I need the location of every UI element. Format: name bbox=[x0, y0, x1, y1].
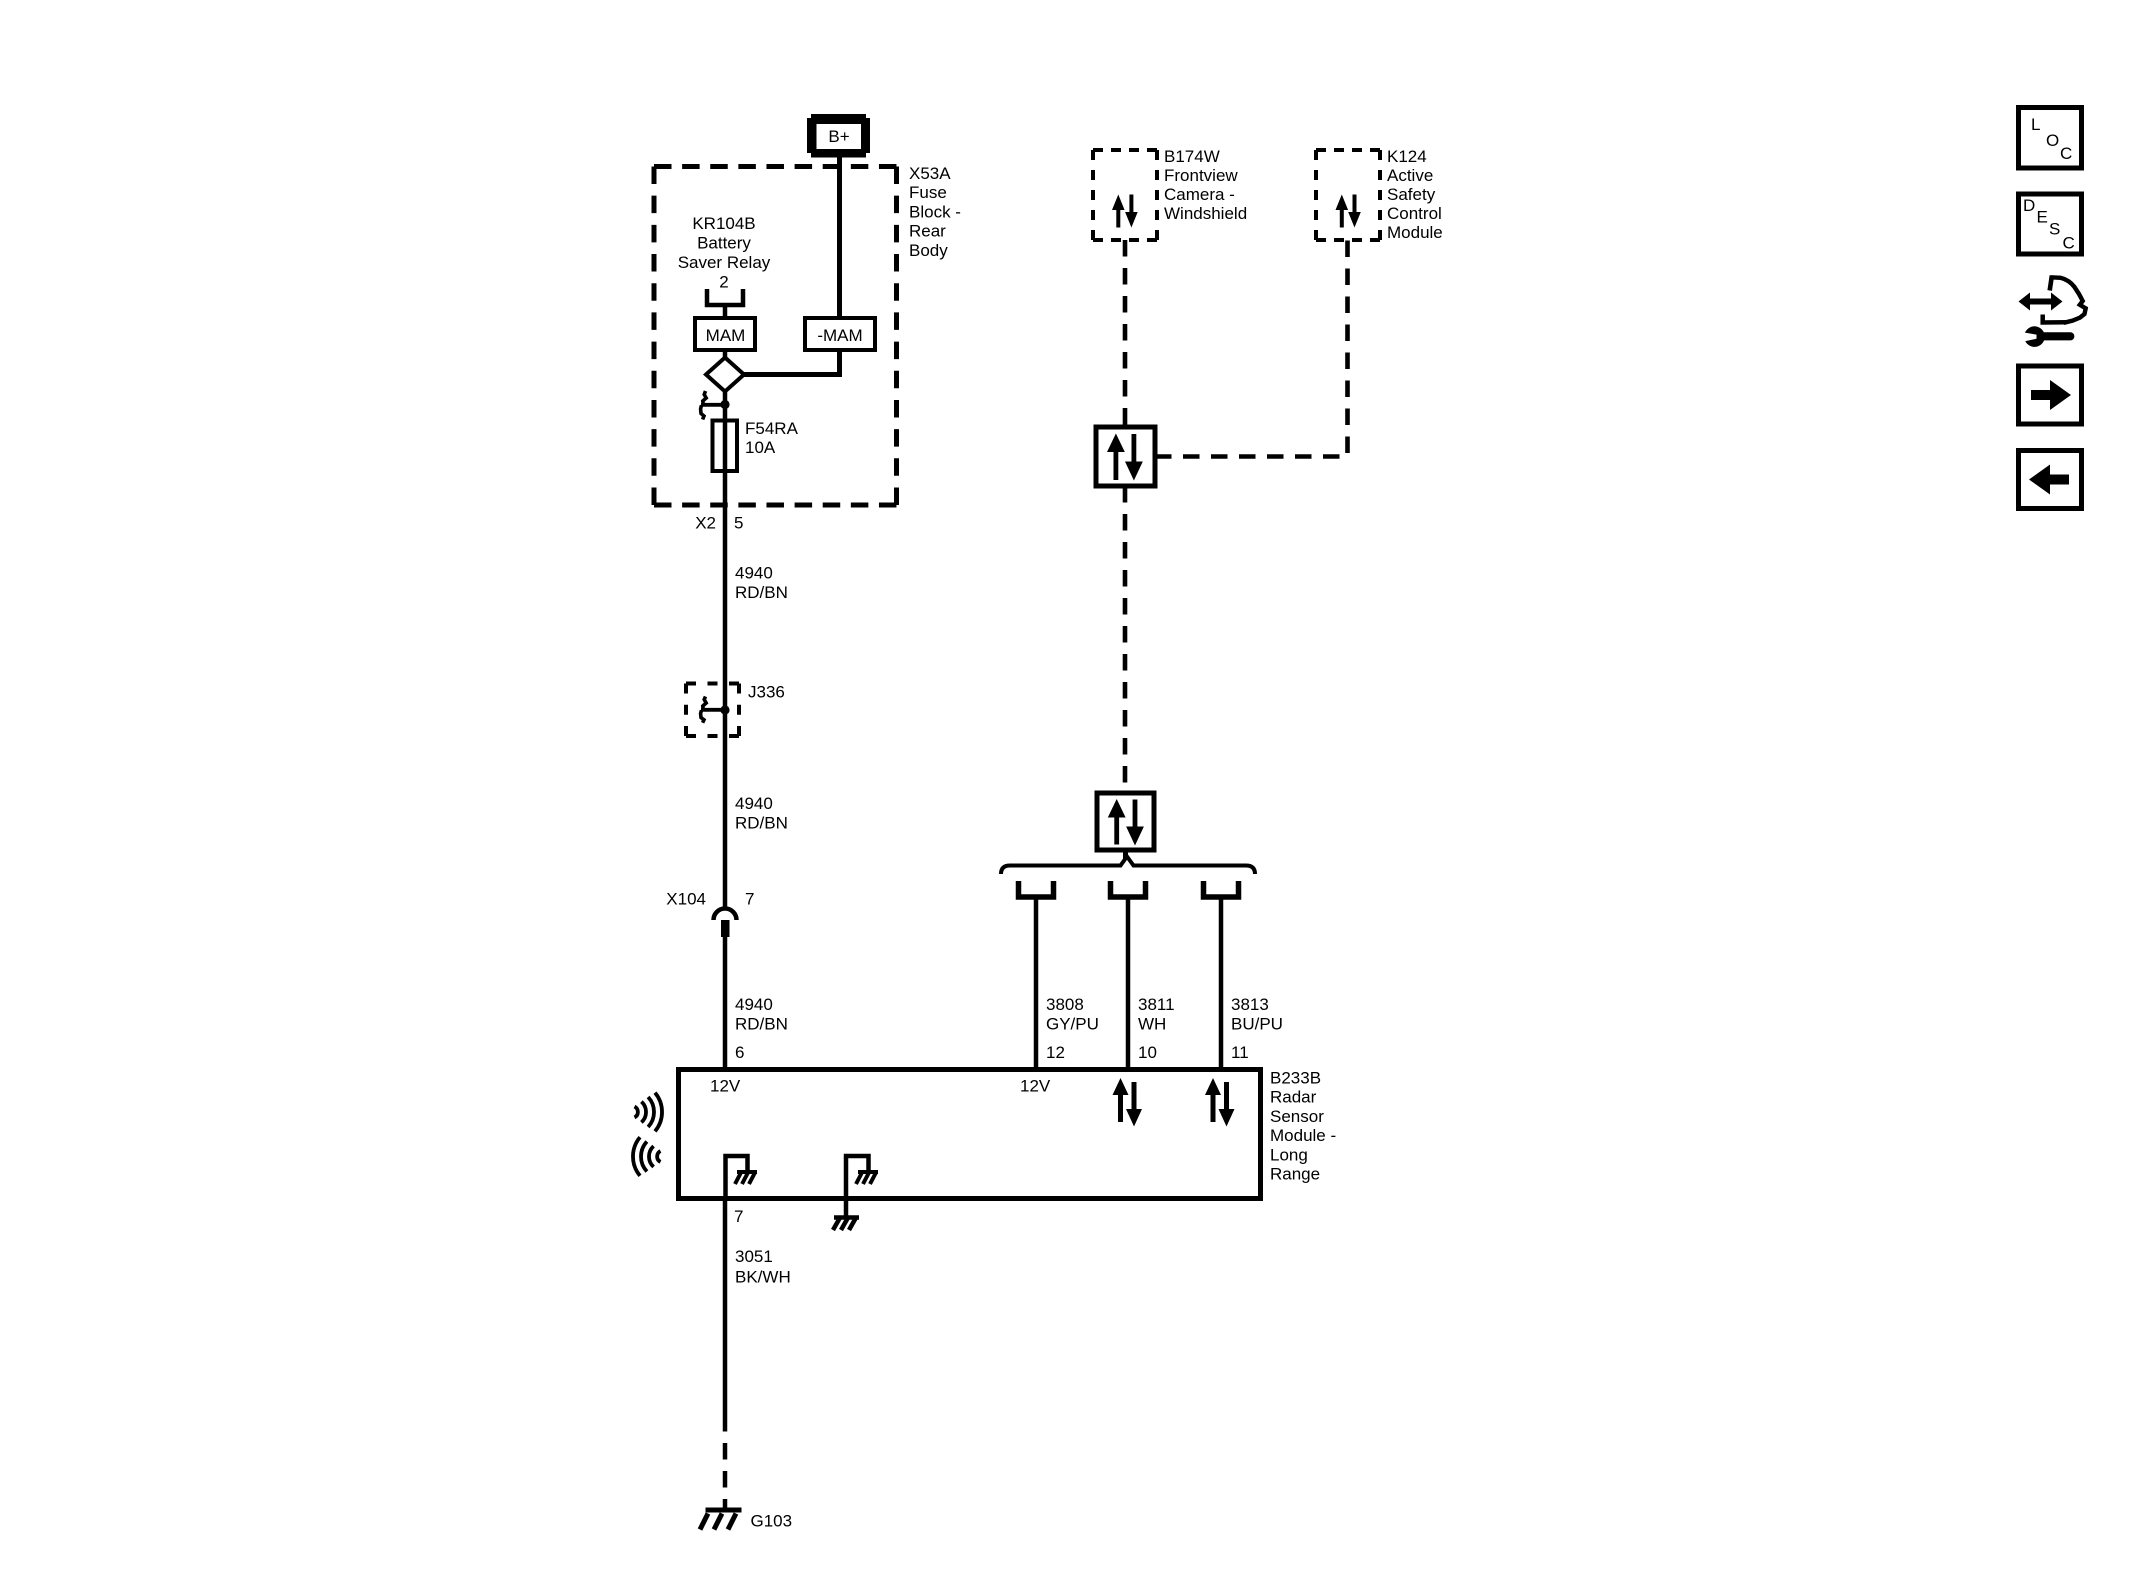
label 3051 BK/WH bbox=[735, 1247, 791, 1287]
connector X104 symbol bbox=[714, 909, 737, 938]
serial data gateway box 1 bbox=[1096, 427, 1155, 486]
label F54RA 10A bbox=[745, 419, 799, 457]
svg-text:GY/PU: GY/PU bbox=[1046, 1015, 1099, 1034]
svg-text:RD/BN: RD/BN bbox=[735, 1015, 788, 1034]
svg-text:Saver Relay: Saver Relay bbox=[678, 253, 771, 272]
wire to pin 12 bbox=[1034, 897, 1039, 1067]
module internal arrows pin 11 bbox=[1205, 1078, 1235, 1127]
svg-text:Frontview: Frontview bbox=[1164, 166, 1238, 185]
next page button bbox=[2019, 366, 2082, 424]
module internal arrows pin 10 bbox=[1113, 1078, 1143, 1127]
label 3811 WH bbox=[1138, 995, 1175, 1034]
svg-text:BU/PU: BU/PU bbox=[1231, 1015, 1283, 1034]
svg-text:Sensor: Sensor bbox=[1270, 1107, 1324, 1126]
chassis ground below module bbox=[833, 1218, 859, 1231]
wire B+ down to -MAM bbox=[837, 157, 842, 318]
svg-text:Camera -: Camera - bbox=[1164, 185, 1235, 204]
svg-text:6: 6 bbox=[735, 1043, 744, 1062]
svg-text:C: C bbox=[2060, 144, 2072, 163]
label 4940 RD/BN (2) bbox=[735, 794, 788, 833]
connector X2 pin 5 labels bbox=[695, 514, 743, 533]
svg-text:Module -: Module - bbox=[1270, 1126, 1336, 1145]
splice branch squiggle bbox=[703, 391, 706, 405]
svg-text:RD/BN: RD/BN bbox=[735, 814, 788, 833]
dashed data wire B174W down to gateway box bbox=[1123, 240, 1128, 427]
svg-text:12: 12 bbox=[1046, 1043, 1065, 1062]
serial data gateway box 2 bbox=[1097, 793, 1154, 850]
svg-text:X2: X2 bbox=[695, 514, 716, 533]
stub gateway box 2 to brace bbox=[1123, 850, 1128, 860]
module internal ground pin 7 bbox=[726, 1156, 758, 1197]
terminal -MAM box bbox=[805, 318, 875, 350]
fuse F54RA 10A bbox=[713, 421, 738, 472]
diagnostic icon double arrow bbox=[2019, 293, 2063, 311]
label X53A Fuse Block - Rear Body bbox=[909, 164, 961, 260]
B174W arrows bbox=[1112, 195, 1138, 228]
svg-text:3051: 3051 bbox=[735, 1247, 773, 1266]
svg-text:B233B: B233B bbox=[1270, 1069, 1321, 1088]
radar waves icon upper bbox=[635, 1093, 663, 1132]
junction diamond bbox=[706, 358, 744, 392]
svg-text:10A: 10A bbox=[745, 438, 776, 457]
splice J336 dashed box bbox=[686, 684, 739, 737]
svg-text:L: L bbox=[2031, 115, 2040, 134]
svg-text:Control: Control bbox=[1387, 204, 1442, 223]
radar waves icon lower bbox=[633, 1137, 661, 1176]
connector bracket pin 11 bbox=[1204, 881, 1239, 897]
label 3808 GY/PU bbox=[1046, 995, 1099, 1034]
diagnostic icon wrench bbox=[2023, 326, 2071, 347]
splice branch stub bbox=[701, 403, 725, 407]
svg-text:Block -: Block - bbox=[909, 202, 961, 221]
svg-text:S: S bbox=[2049, 220, 2060, 239]
svg-text:C: C bbox=[2063, 234, 2075, 253]
module B233B Radar Sensor box bbox=[679, 1070, 1261, 1199]
label KR104B Battery Saver Relay 2 bbox=[678, 214, 771, 292]
junction dot bbox=[720, 400, 729, 409]
wire pin 7 down (3051 BK/WH) bbox=[723, 1198, 728, 1415]
svg-text:K124: K124 bbox=[1387, 147, 1427, 166]
svg-text:7: 7 bbox=[745, 890, 754, 909]
svg-text:B174W: B174W bbox=[1164, 147, 1220, 166]
label 4940 RD/BN (1) bbox=[735, 564, 788, 603]
module internal ground 2 bbox=[846, 1156, 878, 1197]
wire MAM to diamond bbox=[723, 350, 728, 358]
svg-text:Rear: Rear bbox=[909, 222, 946, 241]
svg-text:Radar: Radar bbox=[1270, 1088, 1317, 1107]
ground G103 symbol bbox=[700, 1510, 742, 1530]
svg-text:7: 7 bbox=[734, 1207, 743, 1226]
svg-text:RD/BN: RD/BN bbox=[735, 583, 788, 602]
svg-text:4940: 4940 bbox=[735, 564, 773, 583]
svg-text:12V: 12V bbox=[1020, 1077, 1051, 1096]
svg-text:BK/WH: BK/WH bbox=[735, 1268, 791, 1287]
svg-text:-MAM: -MAM bbox=[817, 326, 862, 345]
svg-text:X104: X104 bbox=[666, 890, 706, 909]
wire fuse to X104 (4940 RD/BN) bbox=[723, 420, 728, 907]
wire bracket to MAM bbox=[723, 305, 728, 318]
svg-text:Range: Range bbox=[1270, 1165, 1320, 1184]
svg-text:5: 5 bbox=[734, 514, 743, 533]
svg-text:Module: Module bbox=[1387, 223, 1443, 242]
previous page button bbox=[2019, 451, 2082, 509]
svg-text:4940: 4940 bbox=[735, 794, 773, 813]
wire diamond to fuse bbox=[723, 392, 728, 421]
label 3813 BU/PU bbox=[1231, 995, 1283, 1034]
svg-text:O: O bbox=[2046, 131, 2059, 150]
svg-text:2: 2 bbox=[719, 273, 728, 292]
svg-text:MAM: MAM bbox=[706, 326, 746, 345]
svg-text:11: 11 bbox=[1231, 1043, 1249, 1062]
DESC button bbox=[2019, 194, 2082, 254]
ground wire below module bbox=[844, 1198, 849, 1217]
diagnostic icon car outline spur bbox=[2050, 276, 2052, 291]
svg-text:D: D bbox=[2023, 196, 2035, 215]
svg-text:12V: 12V bbox=[710, 1077, 741, 1096]
dashed data wire K124 to gateway box bbox=[1155, 240, 1348, 457]
terminal MAM box bbox=[695, 318, 755, 350]
svg-text:B+: B+ bbox=[828, 127, 849, 146]
wire X104 to module pin 6 bbox=[723, 937, 728, 1067]
diagnostic icon car outline bbox=[2051, 277, 2086, 323]
svg-text:Safety: Safety bbox=[1387, 185, 1436, 204]
dashed data wire between gateway boxes bbox=[1123, 486, 1128, 793]
label B174W Frontview Camera - Windshield bbox=[1164, 147, 1247, 223]
svg-text:X53A: X53A bbox=[909, 164, 951, 183]
svg-text:E: E bbox=[2037, 208, 2048, 227]
label B233B Radar Sensor Module - Long Range bbox=[1270, 1069, 1336, 1184]
serial data box K124 dashed bbox=[1316, 150, 1380, 240]
connector bracket pin 12 bbox=[1019, 881, 1054, 897]
brace over pin connectors bbox=[1001, 857, 1255, 875]
svg-text:J336: J336 bbox=[748, 683, 785, 702]
wire to pin 10 bbox=[1126, 897, 1131, 1067]
svg-text:3813: 3813 bbox=[1231, 995, 1269, 1014]
LOC button bbox=[2019, 108, 2082, 169]
splice J336 symbol bbox=[701, 697, 730, 723]
wire to pin 11 bbox=[1219, 897, 1224, 1067]
svg-text:F54RA: F54RA bbox=[745, 419, 799, 438]
svg-text:KR104B: KR104B bbox=[692, 214, 755, 233]
svg-text:Fuse: Fuse bbox=[909, 183, 947, 202]
connector X104 labels bbox=[666, 890, 754, 909]
svg-text:Body: Body bbox=[909, 241, 948, 260]
svg-text:G103: G103 bbox=[751, 1512, 793, 1531]
label 4940 RD/BN (3) bbox=[735, 995, 788, 1034]
fuse block X53A dashed box bbox=[654, 167, 897, 506]
dashed wire to G103 bbox=[723, 1415, 728, 1509]
relay KR104B contact bracket bbox=[707, 289, 743, 305]
svg-text:Battery: Battery bbox=[697, 234, 751, 253]
B+ power terminal bbox=[807, 114, 870, 158]
diagnostic icon bottom bar bbox=[2043, 315, 2067, 323]
svg-text:4940: 4940 bbox=[735, 995, 773, 1014]
wire -MAM to diamond bbox=[744, 350, 840, 375]
K124 arrows bbox=[1336, 195, 1361, 228]
connector bracket pin 10 bbox=[1111, 881, 1146, 897]
svg-text:10: 10 bbox=[1138, 1043, 1157, 1062]
serial data box B174W dashed bbox=[1093, 150, 1157, 240]
svg-text:WH: WH bbox=[1138, 1015, 1166, 1034]
label K124 Active Safety Control Module bbox=[1387, 147, 1443, 242]
svg-text:Active: Active bbox=[1387, 166, 1433, 185]
svg-text:3811: 3811 bbox=[1138, 995, 1175, 1014]
svg-text:Long: Long bbox=[1270, 1145, 1308, 1164]
svg-text:3808: 3808 bbox=[1046, 995, 1084, 1014]
svg-text:Windshield: Windshield bbox=[1164, 204, 1247, 223]
